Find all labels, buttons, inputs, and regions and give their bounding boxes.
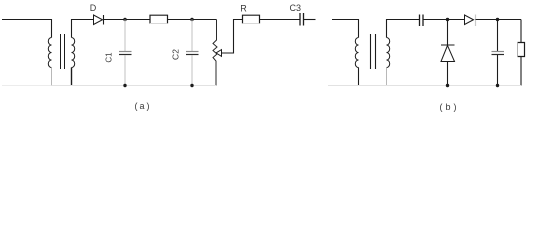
svg-text:(a): (a) <box>135 101 152 111</box>
svg-text:C1: C1 <box>104 52 113 63</box>
node junction top C5 <box>496 18 499 21</box>
wire input top left (a) <box>2 20 52 38</box>
svg-text:(b): (b) <box>440 102 460 112</box>
wire box1 to node 2 <box>168 19 217 21</box>
resistor box 1 <box>150 15 168 23</box>
transformer T2 secondary winding <box>387 38 390 68</box>
diode D2 shunt <box>441 20 455 86</box>
wire T2 secondary bottom leg <box>386 68 388 86</box>
capacitor C4 coupling <box>420 15 424 27</box>
transformer T2 core <box>371 34 376 69</box>
potentiometer wiper arrow <box>216 20 243 57</box>
wire input top left (b) <box>332 20 359 38</box>
node junction top C2 <box>190 18 193 21</box>
capacitor C2 <box>186 20 199 86</box>
wire bottom rail (a) <box>52 85 217 87</box>
node junction top C1 <box>123 18 126 21</box>
transformer T1 core <box>61 34 65 69</box>
svg-text:C2: C2 <box>170 49 180 60</box>
node junction bottom C1 <box>123 84 126 87</box>
diode D <box>94 15 104 25</box>
wire T2 primary bottom leg <box>358 68 360 86</box>
transformer T1 secondary winding <box>72 38 75 68</box>
wire C3 output <box>304 19 316 21</box>
wire T2 secondary top leg <box>387 20 420 38</box>
capacitor C3 <box>300 13 304 26</box>
transformer T1 primary winding <box>48 38 51 68</box>
svg-text:C3: C3 <box>290 3 302 13</box>
wire secondary bottom leg <box>71 68 73 86</box>
node junction bottom C2 <box>190 84 193 87</box>
node junction bottom C5 <box>496 84 499 87</box>
wire diode to node 1 <box>104 19 151 21</box>
wire D3 to corner <box>476 19 522 21</box>
node junction top D2 <box>446 18 449 21</box>
capacitor C5 <box>492 20 505 86</box>
capacitor C1 <box>119 20 132 86</box>
svg-text:D: D <box>90 3 97 13</box>
resistor R box <box>243 15 260 23</box>
potentiometer RP zigzag <box>213 20 217 86</box>
svg-text:R: R <box>240 4 247 14</box>
transformer T2 primary winding <box>355 38 358 68</box>
resistor RL box <box>518 20 525 86</box>
wire C4 to node 3 <box>423 19 465 21</box>
node junction bottom D2 <box>446 84 449 87</box>
wire input bottom left (a) <box>2 85 52 87</box>
wire R to C3 <box>260 19 300 21</box>
diode D3 series <box>465 15 476 27</box>
wire secondary top leg to diode <box>72 20 94 38</box>
wire primary bottom leg <box>51 68 53 86</box>
wire bottom rail (b) <box>328 85 521 87</box>
